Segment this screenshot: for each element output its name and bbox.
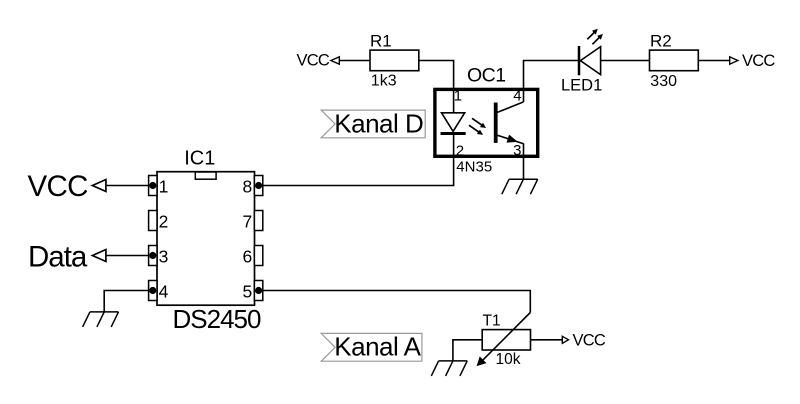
optocoupler OC1 box: [435, 89, 538, 156]
OC1 LED diode: [441, 113, 466, 134]
trimmer T1: [477, 313, 531, 367]
svg-text:330: 330: [650, 73, 677, 90]
svg-text:Kanal D: Kanal D: [334, 109, 423, 139]
svg-text:1k3: 1k3: [371, 73, 397, 90]
junction dot pin1: [149, 182, 156, 189]
resistor R1: [370, 50, 419, 71]
supply arrow VCC left: [92, 180, 106, 192]
svg-text:2: 2: [159, 211, 169, 231]
net flag Kanal A: [321, 331, 422, 361]
svg-text:4N35: 4N35: [456, 158, 492, 175]
svg-text:R2: R2: [650, 32, 672, 51]
svg-text:VCC: VCC: [742, 52, 775, 70]
net flag Kanal D: [321, 109, 425, 139]
svg-text:LED1: LED1: [561, 76, 602, 94]
wire IC1 pin5 to T1 wiper: [263, 291, 531, 313]
svg-text:10k: 10k: [496, 351, 521, 368]
svg-text:6: 6: [242, 246, 252, 266]
LED1 light arrow left: [587, 29, 598, 40]
LED1 light arrow right: [592, 34, 603, 44]
wire OC1 pin2 to IC1 pin8: [263, 133, 454, 185]
svg-text:R1: R1: [370, 32, 392, 51]
wire T1 right to VCC: [531, 339, 563, 341]
svg-text:1: 1: [454, 88, 462, 105]
resistor R2: [650, 50, 699, 71]
svg-text:3: 3: [513, 142, 521, 159]
ground below T1: [431, 361, 467, 376]
svg-text:T1: T1: [483, 313, 501, 330]
svg-text:5: 5: [242, 281, 252, 301]
wire IC1 pin1 to VCC: [105, 185, 148, 187]
supply arrow VCC bottom-right: [562, 336, 568, 343]
wire R2 to VCC: [698, 60, 730, 62]
svg-text:7: 7: [242, 211, 252, 231]
IC1 pin 6 pad: [254, 246, 262, 266]
wire IC1 pin3 to Data: [105, 255, 148, 257]
wire VCC arrow to R1: [339, 60, 370, 62]
IC1 DS2450 body: [157, 172, 255, 306]
wire T1 left to ground: [453, 340, 482, 361]
svg-text:Kanal A: Kanal A: [334, 331, 421, 361]
junction dot pin8: [255, 182, 262, 189]
signal arrow Data: [92, 250, 106, 262]
svg-text:8: 8: [242, 176, 252, 196]
wire R1 to OC1 pin1: [419, 61, 454, 114]
wire IC1 pin4 to ground: [104, 291, 148, 312]
IC1 pin 4 pad: [149, 281, 157, 301]
junction dot pin5: [255, 287, 262, 294]
supply arrow VCC top-left: [331, 57, 339, 64]
svg-text:VCC: VCC: [573, 332, 606, 350]
ground below IC1 pin4: [83, 312, 119, 327]
wire OC1 pin4 to LED1: [524, 61, 579, 102]
svg-text:Data: Data: [28, 240, 88, 273]
IC1 pin 2 pad: [149, 211, 157, 231]
IC1 pin 1 pad: [149, 176, 157, 196]
svg-text:3: 3: [159, 246, 169, 266]
svg-text:VCC: VCC: [297, 52, 330, 70]
IC1 pin 8 pad: [254, 176, 262, 196]
svg-text:4: 4: [513, 88, 521, 105]
wire OC1 pin3 to ground: [523, 144, 525, 180]
supply arrow VCC top-right: [730, 57, 738, 64]
junction dot pin3: [149, 252, 156, 259]
LED LED1: [579, 46, 601, 75]
IC1 pin 5 pad: [254, 281, 262, 301]
junction dot pin4: [149, 287, 156, 294]
svg-text:4: 4: [159, 281, 169, 301]
svg-text:OC1: OC1: [467, 65, 506, 87]
IC1 pin 3 pad: [149, 246, 157, 266]
IC1 pin 7 pad: [254, 211, 262, 231]
OC1 light arrow upper: [472, 118, 486, 128]
svg-text:IC1: IC1: [184, 148, 215, 170]
svg-text:VCC: VCC: [28, 170, 89, 203]
wire LED1 to R2: [601, 60, 650, 62]
svg-text:DS2450: DS2450: [173, 304, 261, 334]
svg-text:2: 2: [456, 143, 464, 160]
OC1 light arrow lower: [469, 125, 483, 135]
IC1 notch: [195, 172, 216, 179]
OC1 phototransistor: [496, 102, 524, 144]
svg-text:1: 1: [159, 176, 169, 196]
ground below OC1 pin3: [502, 179, 538, 194]
